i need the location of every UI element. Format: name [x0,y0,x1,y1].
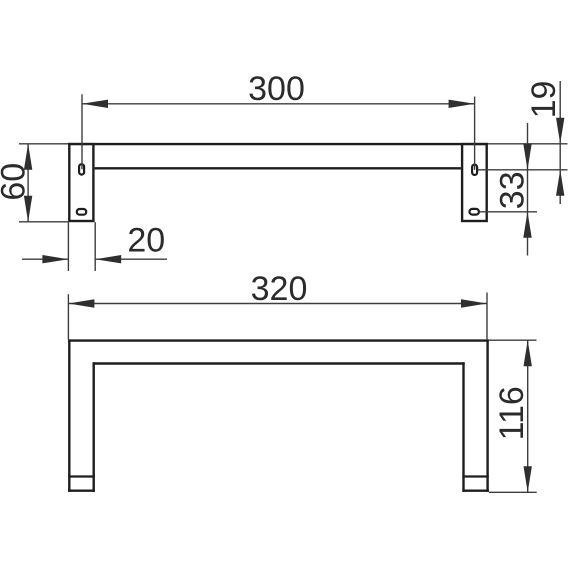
bottom view: left outer edge [68,339,70,492]
left plate lower slot [77,209,86,215]
svg-text:116: 116 [493,386,531,440]
dimension 60 [19,144,68,222]
svg-text:300: 300 [248,70,305,108]
svg-text:60: 60 [0,163,33,201]
svg-text:33: 33 [494,171,532,209]
right plate lower slot [470,209,479,215]
svg-text:320: 320 [251,270,308,308]
left foot divider [68,475,95,477]
bottom view: top edge [68,339,489,341]
right plate upper slot [472,165,477,175]
left mounting plate [69,144,93,221]
bottom view: right outer edge [486,339,488,492]
svg-text:20: 20 [127,222,165,260]
bottom view: underside of crossbar [93,362,465,364]
top view: rail top edge [68,143,488,145]
bottom view: right leg inner edge [462,362,464,492]
left leg bottom [68,490,95,492]
top view: rail bottom edge [95,167,461,169]
dimension 320 [68,293,487,340]
dimension 19 [478,81,568,204]
dimension 116 [489,340,537,492]
dimension 33 [480,123,537,256]
right foot divider [462,475,489,477]
dimension 300 [82,94,475,170]
dimension 20 [22,222,167,271]
bottom view: left leg inner edge [92,362,94,492]
left plate upper slot [79,164,84,174]
svg-text:19: 19 [525,81,563,119]
right leg bottom [462,490,489,492]
right mounting plate [462,144,487,221]
